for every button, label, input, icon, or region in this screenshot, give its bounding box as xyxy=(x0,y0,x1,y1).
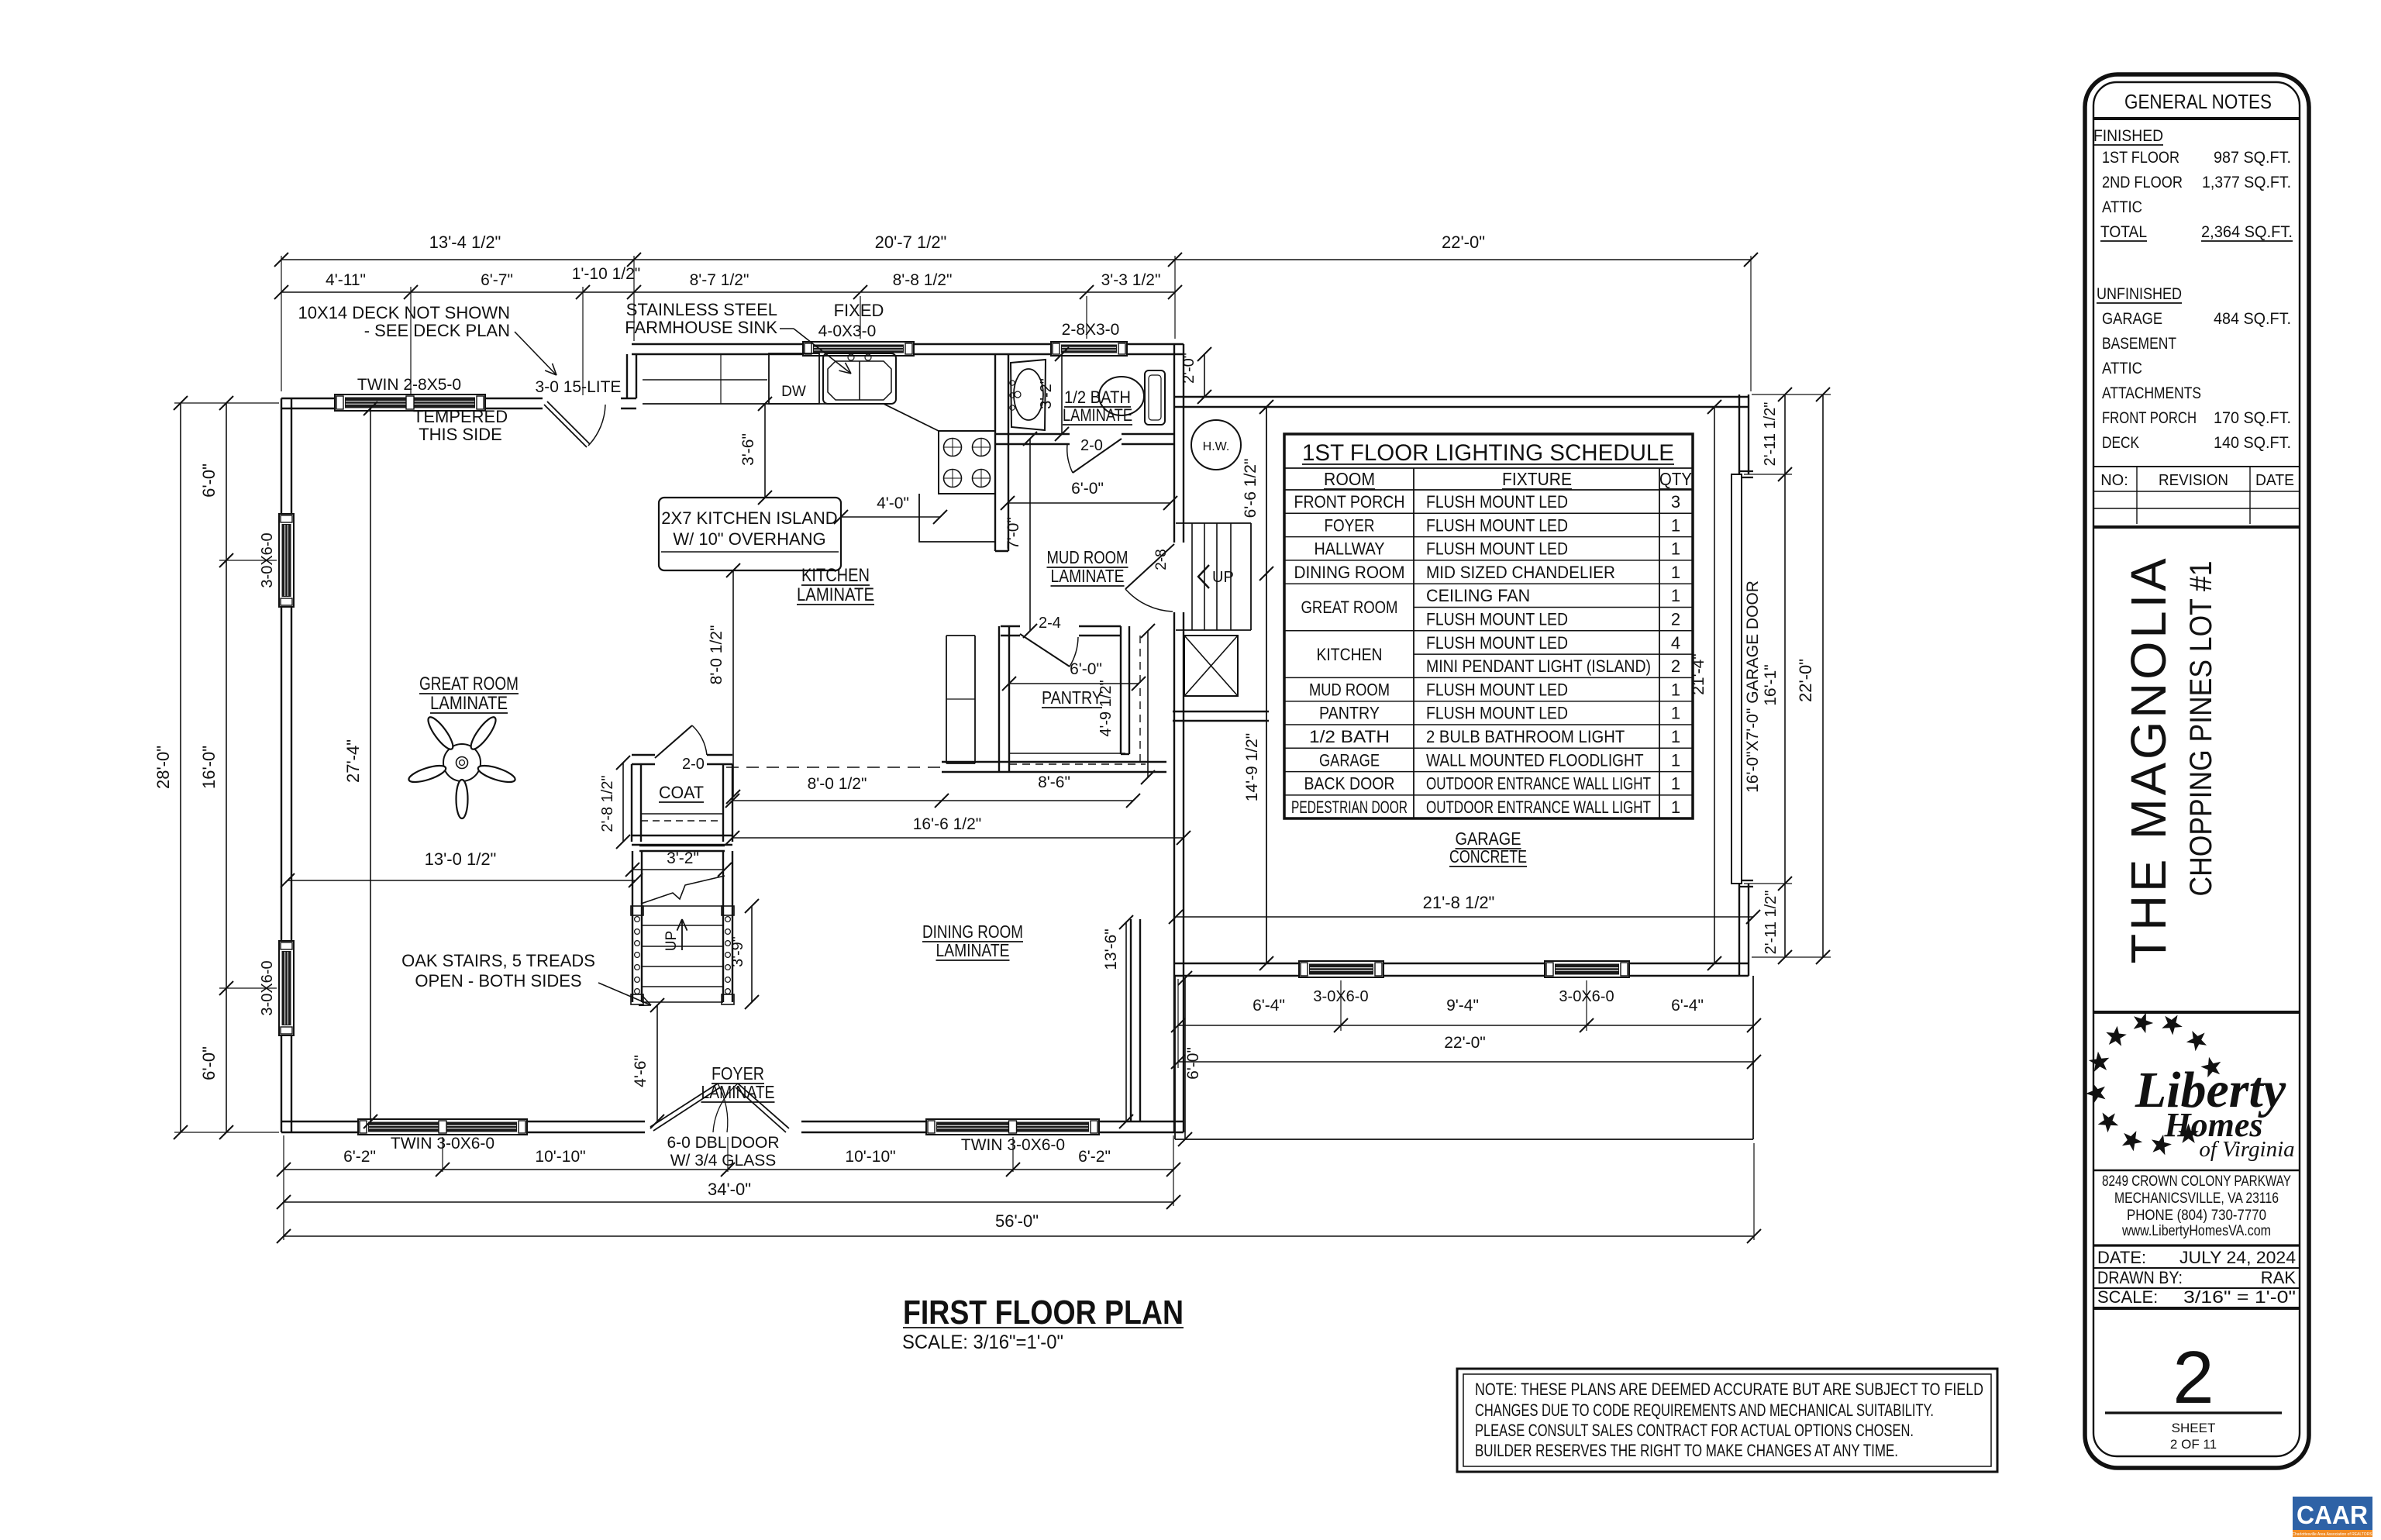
liberty homes logo stars xyxy=(2086,1013,2221,1156)
wall half-bath west / kitchen-mud divider xyxy=(995,354,1008,551)
dim line 4-0 xyxy=(841,516,940,518)
svg-text:28'-0": 28'-0" xyxy=(153,746,173,789)
water heater circle xyxy=(1191,420,1241,470)
svg-text:1/2 BATH: 1/2 BATH xyxy=(1309,727,1390,746)
stair header wall xyxy=(639,846,725,851)
door half-bath leaf xyxy=(1073,439,1122,473)
dim line 22-0 bottom garage xyxy=(1178,1061,1754,1063)
range burner xyxy=(973,470,991,487)
svg-text:of Virginia: of Virginia xyxy=(2199,1137,2294,1162)
wall pantry north west segment xyxy=(1001,626,1020,636)
svg-text:FLUSH MOUNT LED: FLUSH MOUNT LED xyxy=(1426,539,1568,559)
svg-text:UP: UP xyxy=(1212,569,1234,586)
svg-text:7'-0": 7'-0" xyxy=(1004,517,1022,550)
svg-text:TWIN 3-0X6-0: TWIN 3-0X6-0 xyxy=(961,1136,1065,1154)
svg-text:6'-7": 6'-7" xyxy=(481,271,513,289)
range xyxy=(939,431,995,494)
wall front mid-west segment xyxy=(527,1121,645,1132)
svg-text:OUTDOOR ENTRANCE WALL LIGHT: OUTDOOR ENTRANCE WALL LIGHT xyxy=(1426,774,1651,794)
front door right swing arc xyxy=(713,1084,738,1132)
svg-text:2'-8 1/2": 2'-8 1/2" xyxy=(599,775,616,832)
wall pantry east xyxy=(1121,626,1129,754)
svg-text:10'-10": 10'-10" xyxy=(535,1148,585,1166)
svg-text:MECHANICSVILLE, VA 23116: MECHANICSVILLE, VA 23116 xyxy=(2114,1190,2279,1207)
svg-text:1: 1 xyxy=(1671,750,1680,770)
wall garage east upper segment xyxy=(1739,394,1749,474)
svg-text:COAT: COAT xyxy=(659,783,704,802)
wall half-bath south west segment xyxy=(995,434,1070,444)
dim line 3-2 stairs xyxy=(632,869,725,870)
svg-text:8'-7 1/2": 8'-7 1/2" xyxy=(690,271,749,289)
svg-text:2'-11 1/2": 2'-11 1/2" xyxy=(1762,891,1780,955)
kitchen counter corner diagonal xyxy=(884,404,939,431)
svg-text:2ND FLOOR: 2ND FLOOR xyxy=(2102,174,2183,191)
wall kitchen top west segment xyxy=(632,344,803,354)
wall front east segment xyxy=(1099,1121,1184,1132)
kitchen island overhang line xyxy=(661,551,839,553)
door half-bath swing arc xyxy=(1067,444,1073,473)
svg-text:FLUSH MOUNT LED: FLUSH MOUNT LED xyxy=(1426,633,1568,653)
svg-text:27'-4": 27'-4" xyxy=(343,739,363,783)
svg-text:16'-0"X7'-0" GARAGE DOOR: 16'-0"X7'-0" GARAGE DOOR xyxy=(1744,581,1762,793)
svg-text:1ST FLOOR: 1ST FLOOR xyxy=(2102,149,2179,167)
svg-text:QTY: QTY xyxy=(1659,469,1692,489)
svg-text:2: 2 xyxy=(1671,610,1680,629)
svg-text:3-0X6-0: 3-0X6-0 xyxy=(1313,988,1368,1005)
dim line 4-9 1/2 xyxy=(1147,631,1149,777)
tick 6-6.5 top xyxy=(1259,400,1273,414)
svg-text:OPEN - BOTH SIDES: OPEN - BOTH SIDES xyxy=(415,971,581,990)
svg-text:FLUSH MOUNT LED: FLUSH MOUNT LED xyxy=(1426,680,1568,699)
svg-text:16'-1": 16'-1" xyxy=(1762,664,1780,706)
dim line 16-6 1/2 xyxy=(732,837,1184,839)
svg-text:PLEASE CONSULT SALES CONTRACT: PLEASE CONSULT SALES CONTRACT FOR ACTUAL… xyxy=(1475,1421,1914,1440)
svg-text:56'-0": 56'-0" xyxy=(995,1211,1039,1231)
svg-text:3'-3 1/2": 3'-3 1/2" xyxy=(1101,271,1161,289)
svg-text:DATE:: DATE: xyxy=(2097,1248,2146,1267)
stairs up right strip xyxy=(1176,523,1251,630)
thick rule under scale xyxy=(2093,1307,2300,1310)
wall coat closet west xyxy=(632,764,641,842)
svg-text:STAINLESS STEEL: STAINLESS STEEL xyxy=(626,300,777,319)
svg-text:JULY 24, 2024: JULY 24, 2024 xyxy=(2179,1248,2296,1267)
svg-text:3-0X6-0: 3-0X6-0 xyxy=(259,960,276,1015)
table rows text xyxy=(1291,492,1680,817)
svg-text:10X14 DECK NOT SHOWN: 10X14 DECK NOT SHOWN xyxy=(298,303,510,322)
door pantry swing arc xyxy=(1070,637,1078,667)
front double door right leaf xyxy=(736,1084,789,1132)
svg-text:DATE: DATE xyxy=(2255,472,2294,489)
kitchen counter front edge xyxy=(643,403,884,405)
dim line 3-6 xyxy=(764,404,766,498)
svg-text:10'-10": 10'-10" xyxy=(845,1148,895,1166)
svg-text:9'-4": 9'-4" xyxy=(1446,997,1479,1015)
svg-text:16'-0": 16'-0" xyxy=(199,746,219,789)
svg-text:LAMINATE: LAMINATE xyxy=(936,940,1010,960)
door 3-0 15-LITE leaf xyxy=(544,401,590,447)
svg-text:22'-0": 22'-0" xyxy=(1442,233,1485,252)
svg-text:1: 1 xyxy=(1671,515,1680,535)
revision table xyxy=(2093,467,2300,527)
dim line left inner xyxy=(226,403,227,1132)
ceiling fan xyxy=(407,714,517,818)
dim line 34-0 xyxy=(284,1201,1173,1203)
wall coat closet north west segment xyxy=(632,755,655,764)
svg-text:1: 1 xyxy=(1671,704,1680,723)
wall garage top xyxy=(1175,397,1749,407)
dim line 4-6 xyxy=(656,1005,658,1121)
svg-text:HALLWAY: HALLWAY xyxy=(1315,539,1385,559)
leader oak stairs arrow xyxy=(598,983,651,1005)
svg-text:MUD ROOM: MUD ROOM xyxy=(1309,680,1390,699)
kitchen counter below range xyxy=(919,494,995,542)
range burner xyxy=(944,470,962,487)
window TWIN 2-8X5-0 great room top xyxy=(335,394,485,411)
svg-text:TWIN 3-0X6-0: TWIN 3-0X6-0 xyxy=(391,1135,494,1152)
svg-text:6'-4": 6'-4" xyxy=(1671,997,1704,1015)
svg-text:22'-0": 22'-0" xyxy=(1444,1034,1486,1052)
wall garage front mid segment xyxy=(1383,963,1545,976)
svg-text:PHONE (804) 730-7770: PHONE (804) 730-7770 xyxy=(2127,1208,2266,1224)
svg-text:6'-0": 6'-0" xyxy=(1070,660,1102,678)
wall house east lower segment xyxy=(1174,612,1184,1132)
title block border xyxy=(2085,74,2309,1468)
svg-text:8'-8 1/2": 8'-8 1/2" xyxy=(893,271,953,289)
dim line right jog/garage door xyxy=(1784,394,1786,957)
dim line 6-0 pantry xyxy=(1009,683,1139,684)
wall left lower segment xyxy=(281,1035,291,1132)
svg-text:CHOPPING PINES LOT #1: CHOPPING PINES LOT #1 xyxy=(2184,561,2218,897)
leader deck arrow xyxy=(515,332,556,375)
svg-text:3/16" = 1'-0": 3/16" = 1'-0" xyxy=(2183,1287,2296,1307)
svg-text:CEILING FAN: CEILING FAN xyxy=(1426,586,1530,605)
svg-text:21'-8 1/2": 21'-8 1/2" xyxy=(1423,893,1495,912)
wall coat closet north east segment xyxy=(707,755,732,764)
svg-text:MID SIZED CHANDELIER: MID SIZED CHANDELIER xyxy=(1426,563,1615,582)
leader sink arrow xyxy=(794,329,851,374)
svg-text:DW: DW xyxy=(781,384,806,400)
wall dining east xyxy=(1131,919,1140,1121)
wall house east upper segment xyxy=(1174,344,1184,543)
svg-text:DRAWN BY:: DRAWN BY: xyxy=(2097,1268,2183,1287)
wall great room top east segment xyxy=(621,398,636,408)
wall jog garage door top xyxy=(1739,470,1753,472)
tick 14-9.5 bottom xyxy=(1259,956,1273,970)
wall coat closet east xyxy=(723,764,732,842)
svg-text:DECK: DECK xyxy=(2102,434,2139,452)
wall pantry south / dining north xyxy=(942,762,1166,772)
svg-text:GREAT ROOM: GREAT ROOM xyxy=(1301,598,1398,617)
porch east edge xyxy=(1752,976,1754,1139)
svg-text:KITCHEN: KITCHEN xyxy=(801,565,870,586)
kitchen sink outer xyxy=(823,353,896,404)
window 3-0X6-0 left wall upper xyxy=(279,514,294,607)
svg-text:8'-6": 8'-6" xyxy=(1038,773,1070,791)
kitchen cabinet inner line xyxy=(643,379,767,381)
svg-text:- SEE DECK PLAN: - SEE DECK PLAN xyxy=(364,321,510,340)
svg-text:484 SQ.FT.: 484 SQ.FT. xyxy=(2214,310,2291,328)
window 3-0X6-0 left wall lower xyxy=(279,941,294,1035)
svg-text:REVISION: REVISION xyxy=(2159,472,2228,489)
svg-text:TEMPERED: TEMPERED xyxy=(413,407,508,426)
wall left middle segment xyxy=(281,607,291,941)
door coat closet leaf 2-0 xyxy=(655,725,692,758)
dim line 13-0 1/2 xyxy=(288,880,636,881)
svg-text:8249 CROWN COLONY PARKWAY: 8249 CROWN COLONY PARKWAY xyxy=(2102,1173,2291,1190)
svg-text:MINI PENDANT LIGHT (ISLAND): MINI PENDANT LIGHT (ISLAND) xyxy=(1426,656,1651,676)
door pantry leaf 2-4 xyxy=(1020,634,1070,667)
svg-text:GREAT ROOM: GREAT ROOM xyxy=(419,674,519,694)
svg-text:GARAGE: GARAGE xyxy=(2102,310,2162,328)
wall garage east lower segment xyxy=(1739,884,1749,976)
kitchen sink basin xyxy=(828,361,891,400)
svg-text:2-8: 2-8 xyxy=(1153,549,1170,570)
svg-text:TOTAL: TOTAL xyxy=(2100,223,2147,241)
svg-text:6'-0": 6'-0" xyxy=(199,1046,219,1080)
svg-text:KITCHEN: KITCHEN xyxy=(1317,645,1383,664)
svg-text:BASEMENT: BASEMENT xyxy=(2102,335,2176,353)
svg-text:CHANGES DUE TO CODE REQUIREMEN: CHANGES DUE TO CODE REQUIREMENTS AND MEC… xyxy=(1475,1400,1934,1420)
svg-text:6'-2": 6'-2" xyxy=(343,1148,376,1166)
wall jog garage door bottom xyxy=(1739,880,1753,881)
range burner xyxy=(973,439,991,456)
svg-text:13'-4 1/2": 13'-4 1/2" xyxy=(429,233,501,252)
svg-text:UNFINISHED: UNFINISHED xyxy=(2097,285,2182,303)
wall jog kitchen/great room xyxy=(627,354,636,398)
svg-text:1ST FLOOR LIGHTING SCHEDULE: 1ST FLOOR LIGHTING SCHEDULE xyxy=(1302,440,1674,466)
svg-text:8'-0 1/2": 8'-0 1/2" xyxy=(808,775,867,793)
dim line top row1 xyxy=(281,259,1751,260)
rule under general notes xyxy=(2093,117,2300,120)
kitchen cabinet divider xyxy=(720,354,722,404)
pantry shelf solid xyxy=(1009,753,1125,754)
svg-text:2 OF 11: 2 OF 11 xyxy=(2170,1437,2217,1452)
svg-text:UP: UP xyxy=(663,931,680,951)
svg-text:NO:: NO: xyxy=(2100,472,2128,489)
svg-text:2-0: 2-0 xyxy=(682,756,705,773)
window 4-0X3-0 kitchen fixed xyxy=(803,342,914,356)
svg-text:34'-0": 34'-0" xyxy=(708,1180,751,1199)
kitchen sink divider xyxy=(859,361,860,400)
wall pantry north east segment xyxy=(1079,626,1121,636)
svg-text:3-0 15-LITE: 3-0 15-LITE xyxy=(536,378,622,396)
garage door 16-0x7-0 panel xyxy=(1731,474,1742,884)
wall left upper segment xyxy=(281,398,291,514)
stair break line xyxy=(641,876,725,904)
dim line 21-8 1/2 xyxy=(1176,916,1753,918)
svg-text:1: 1 xyxy=(1671,680,1680,699)
svg-text:2: 2 xyxy=(2173,1336,2214,1419)
svg-text:3'-2": 3'-2" xyxy=(1038,378,1055,409)
half-bath vanity sink xyxy=(1010,360,1046,430)
sink faucet left xyxy=(848,354,854,360)
front double door left leaf xyxy=(650,1084,720,1131)
wall great room top west segment xyxy=(281,398,335,408)
wall front mid-east segment xyxy=(801,1121,926,1132)
svg-text:FOYER: FOYER xyxy=(1325,515,1375,535)
svg-text:2-8X3-0: 2-8X3-0 xyxy=(1062,321,1120,339)
dim line 2-0 jog xyxy=(1204,354,1205,397)
svg-text:1: 1 xyxy=(1671,774,1680,794)
kitchen island 2x7 xyxy=(659,498,841,570)
svg-text:BUILDER RESERVES THE RIGHT TO: BUILDER RESERVES THE RIGHT TO MAKE CHANG… xyxy=(1475,1441,1898,1460)
svg-text:ROOM: ROOM xyxy=(1324,469,1375,489)
dimension extension lines xyxy=(174,256,1831,1240)
dishwasher xyxy=(769,353,819,404)
svg-text:FINISHED: FINISHED xyxy=(2093,127,2163,145)
svg-text:FRONT PORCH: FRONT PORCH xyxy=(1294,492,1405,512)
svg-text:CONCRETE: CONCRETE xyxy=(1449,846,1527,866)
svg-text:6'-0": 6'-0" xyxy=(199,463,219,498)
svg-text:140 SQ.FT.: 140 SQ.FT. xyxy=(2214,434,2291,452)
svg-text:PEDESTRIAN DOOR: PEDESTRIAN DOOR xyxy=(1291,798,1408,817)
svg-text:DINING ROOM: DINING ROOM xyxy=(922,922,1023,942)
kitchen base cabinet by pantry xyxy=(946,636,975,763)
svg-text:2'-0": 2'-0" xyxy=(1180,353,1197,384)
svg-text:MUD ROOM: MUD ROOM xyxy=(1047,547,1128,567)
svg-text:RAK: RAK xyxy=(2261,1268,2297,1287)
wall great room top mid segment xyxy=(485,398,543,408)
rule above logo xyxy=(2093,1011,2300,1014)
svg-text:BACK DOOR: BACK DOOR xyxy=(1304,774,1395,794)
dim line 7-0 xyxy=(1029,439,1031,631)
front door left swing arc xyxy=(718,1084,728,1132)
svg-text:Charlottesville Area Associati: Charlottesville Area Association of REAL… xyxy=(2292,1532,2372,1537)
dim line 56-0 xyxy=(284,1235,1754,1237)
svg-text:OAK STAIRS, 5 TREADS: OAK STAIRS, 5 TREADS xyxy=(401,951,595,970)
svg-text:6'-2": 6'-2" xyxy=(1078,1148,1111,1166)
CAAR logo xyxy=(2292,1497,2372,1537)
dim line top row2 xyxy=(281,291,1175,293)
svg-text:FARMHOUSE SINK: FARMHOUSE SINK xyxy=(625,318,777,337)
svg-text:987 SQ.FT.: 987 SQ.FT. xyxy=(2214,149,2291,167)
stair UP arrow right strip xyxy=(1198,565,1209,588)
floor plan xyxy=(279,342,1753,1139)
note box xyxy=(1457,1369,1997,1472)
svg-text:1/2 BATH: 1/2 BATH xyxy=(1064,388,1131,407)
svg-text:2,364 SQ.FT.: 2,364 SQ.FT. xyxy=(2201,223,2293,241)
dim line 27-4 interior xyxy=(370,408,371,1121)
wall pantry west xyxy=(999,626,1009,772)
svg-text:LAMINATE: LAMINATE xyxy=(430,693,508,714)
svg-text:2-4: 2-4 xyxy=(1039,615,1061,632)
dim line 28ft left xyxy=(180,403,181,1132)
svg-text:14'-9 1/2": 14'-9 1/2" xyxy=(1243,733,1261,802)
svg-text:22'-0": 22'-0" xyxy=(1796,659,1815,702)
dim line 21-4 garage xyxy=(1714,407,1715,963)
svg-text:4: 4 xyxy=(1671,633,1680,653)
svg-text:FLUSH MOUNT LED: FLUSH MOUNT LED xyxy=(1426,515,1568,535)
rule under logo xyxy=(2093,1170,2300,1172)
svg-text:FIXTURE: FIXTURE xyxy=(1502,469,1572,489)
svg-text:OUTDOOR ENTRANCE WALL LIGHT: OUTDOOR ENTRANCE WALL LIGHT xyxy=(1426,798,1651,817)
svg-text:2 BULB BATHROOM LIGHT: 2 BULB BATHROOM LIGHT xyxy=(1426,727,1625,746)
svg-text:1: 1 xyxy=(1671,727,1680,746)
dashed line kitchen/dining opening xyxy=(726,767,942,768)
window TWIN 3-0X6-0 front right xyxy=(926,1119,1099,1135)
wall stair strip south xyxy=(1173,711,1269,721)
line under sheet number xyxy=(2105,1411,2282,1414)
svg-text:2: 2 xyxy=(1671,656,1680,676)
svg-text:1: 1 xyxy=(1671,586,1680,605)
dim line 8-0.5 / 8-6 xyxy=(732,800,1133,801)
svg-text:1: 1 xyxy=(1671,563,1680,582)
svg-text:16'-6 1/2": 16'-6 1/2" xyxy=(913,815,982,833)
range burner xyxy=(944,439,962,456)
svg-text:2X7 KITCHEN ISLAND: 2X7 KITCHEN ISLAND xyxy=(661,508,837,528)
coat shelf dashed xyxy=(641,820,723,822)
window 3-0X6-0 garage front left xyxy=(1299,961,1383,977)
svg-text:THIS SIDE: THIS SIDE xyxy=(419,425,502,444)
svg-text:DINING ROOM: DINING ROOM xyxy=(1294,563,1405,582)
svg-text:4-0X3-0: 4-0X3-0 xyxy=(818,322,877,340)
door coat closet swing arc xyxy=(692,725,707,755)
svg-text:2'-11 1/2": 2'-11 1/2" xyxy=(1762,402,1779,467)
svg-text:1: 1 xyxy=(1671,798,1680,817)
svg-text:FIXED: FIXED xyxy=(834,301,884,320)
svg-text:1: 1 xyxy=(1671,539,1680,559)
svg-text:W/ 10" OVERHANG: W/ 10" OVERHANG xyxy=(673,529,825,549)
window 3-0X6-0 garage front right xyxy=(1545,961,1629,977)
svg-text:GARAGE: GARAGE xyxy=(1319,750,1380,770)
svg-text:13'-6": 13'-6" xyxy=(1102,928,1120,970)
dim line 6-0 porch xyxy=(1184,978,1186,1139)
porch front edge xyxy=(1175,1139,1753,1140)
svg-text:THE MAGNOLIA: THE MAGNOLIA xyxy=(2121,556,2176,964)
svg-text:4'-6": 4'-6" xyxy=(632,1055,650,1087)
wall garage front east segment xyxy=(1629,963,1749,976)
svg-text:4'-0": 4'-0" xyxy=(877,494,909,512)
svg-text:FLUSH MOUNT LED: FLUSH MOUNT LED xyxy=(1426,610,1568,629)
svg-text:6'-0": 6'-0" xyxy=(1184,1047,1202,1080)
main stairs rails and treads xyxy=(631,851,734,1004)
dim line 2-8 1/2 coat xyxy=(622,763,624,842)
svg-text:6'-6 1/2": 6'-6 1/2" xyxy=(1242,459,1259,519)
svg-text:W/ 3/4 GLASS: W/ 3/4 GLASS xyxy=(670,1152,777,1170)
dim line porch windows xyxy=(1178,1025,1754,1026)
wall stair strip east / dim line xyxy=(1266,407,1267,963)
door 3-0 15-LITE swing arc xyxy=(588,405,605,446)
wall front west segment xyxy=(281,1121,358,1132)
svg-text:H.W.: H.W. xyxy=(1203,440,1230,453)
window TWIN 3-0X6-0 front left xyxy=(358,1119,527,1135)
svg-text:2-0: 2-0 xyxy=(1080,437,1103,454)
svg-text:3-0X6-0: 3-0X6-0 xyxy=(1559,988,1614,1005)
svg-text:FLUSH MOUNT LED: FLUSH MOUNT LED xyxy=(1426,704,1568,723)
svg-text:CAAR: CAAR xyxy=(2297,1500,2368,1529)
svg-text:1'-10 1/2": 1'-10 1/2" xyxy=(572,265,641,283)
svg-text:1,377 SQ.FT.: 1,377 SQ.FT. xyxy=(2202,174,2291,191)
dim line 6-0 mud room xyxy=(1008,502,1170,504)
svg-text:FIRST FLOOR PLAN: FIRST FLOOR PLAN xyxy=(903,1294,1184,1332)
svg-text:PANTRY: PANTRY xyxy=(1319,704,1380,723)
dim line 22-0 right xyxy=(1822,394,1824,957)
svg-text:PANTRY: PANTRY xyxy=(1042,687,1102,708)
dim line 13-6 xyxy=(1125,922,1127,1121)
svg-text:LAMINATE: LAMINATE xyxy=(1063,405,1132,425)
svg-text:LAMINATE: LAMINATE xyxy=(701,1082,775,1102)
tick 6-6.5/14-9.5 xyxy=(1259,567,1273,581)
half-bath toilet xyxy=(1099,370,1165,425)
svg-text:SCALE:: SCALE: xyxy=(2097,1287,2158,1307)
leader sink xyxy=(780,328,794,329)
door mud room to garage leaf 2-8 xyxy=(1125,544,1174,589)
wall half-bath south east segment xyxy=(1122,434,1175,444)
svg-text:6'-0": 6'-0" xyxy=(1071,480,1104,498)
svg-text:NOTE: THESE PLANS ARE DEEMED A: NOTE: THESE PLANS ARE DEEMED ACCURATE BU… xyxy=(1475,1380,1983,1399)
dim line 8-0 1/2 vertical xyxy=(732,570,734,797)
door mud room swing arc xyxy=(1125,589,1173,612)
